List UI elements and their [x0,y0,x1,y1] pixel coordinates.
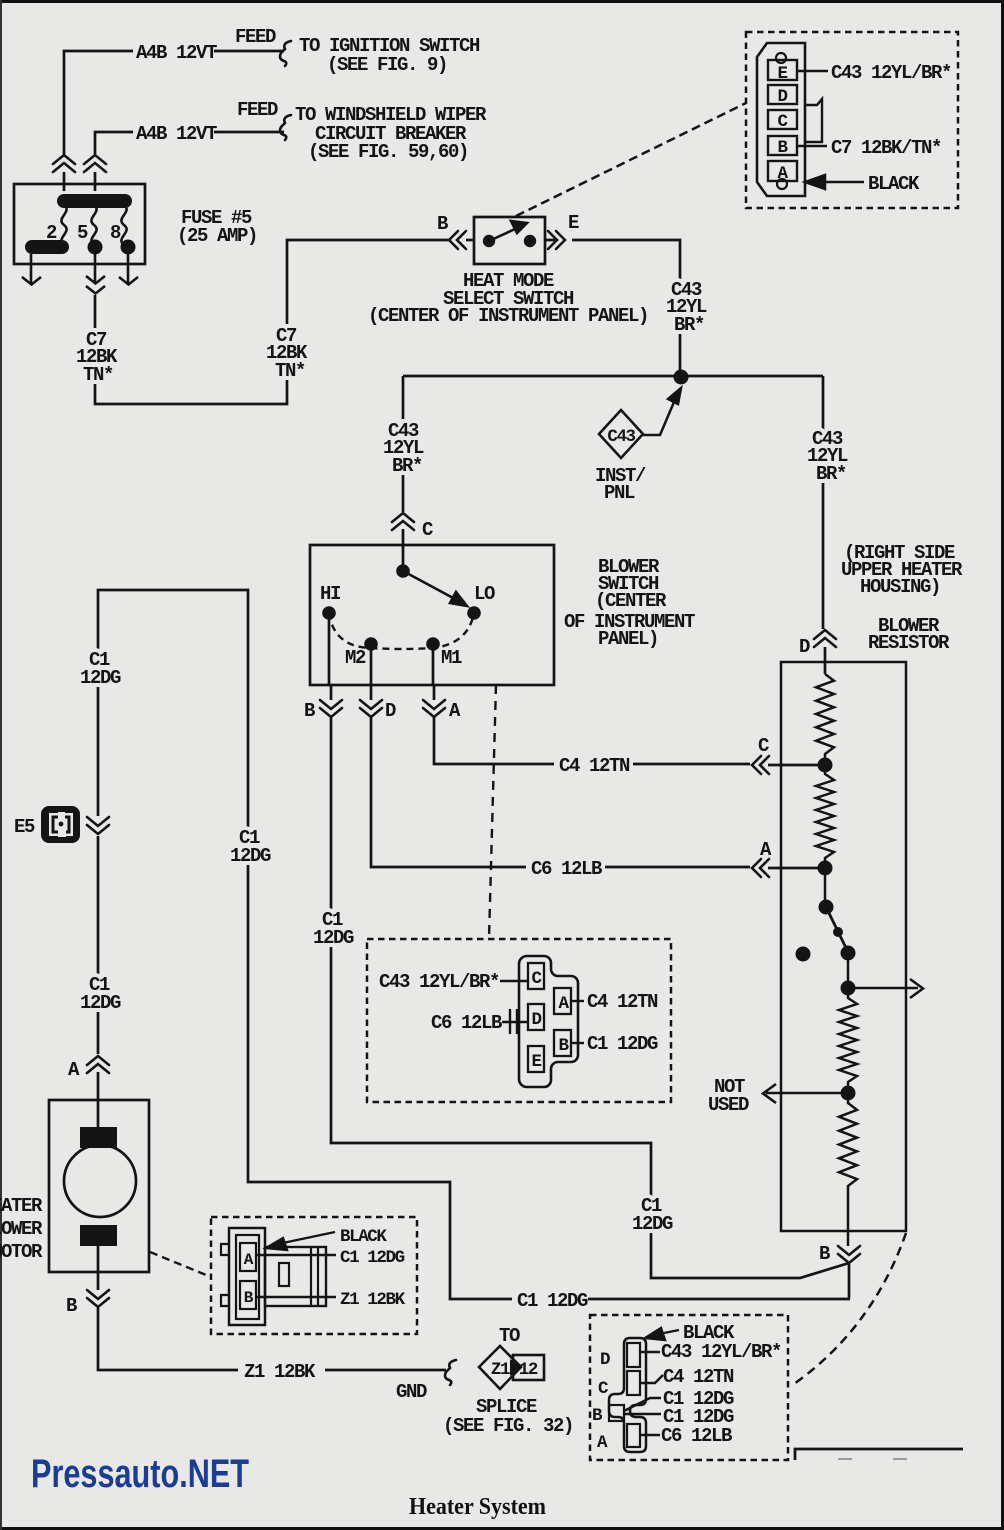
svg-text:Z1 12BK: Z1 12BK [340,1290,406,1310]
wire to tap node [847,953,850,988]
connector chevron E5 [87,817,109,834]
BLACK arrow motor connector [266,1232,335,1250]
svg-text:D: D [777,87,787,107]
leader D pin [640,1351,660,1353]
wire motor B down [98,1246,446,1370]
junction node arrow tap [841,981,856,996]
switch lever arrow to LO [403,571,467,606]
unused contact dot [796,947,811,962]
dashed contact arc [329,613,474,649]
svg-text:B: B [244,1289,254,1307]
motor brush bottom [80,1225,117,1246]
svg-text:C4 12TN: C4 12TN [559,755,630,777]
svg-text:B: B [437,213,448,235]
connector body outline [757,43,805,196]
svg-text:C7 12BK/TN*: C7 12BK/TN* [831,137,941,159]
pin A keying circle [777,179,787,189]
svg-text:A: A [68,1059,80,1081]
wire A tap to switch contact [824,868,827,907]
middle connector dashed box [367,939,671,1102]
dashed line motor to connector detail [150,1252,211,1277]
pin B middle connector [554,1030,571,1056]
connector outer shell [229,1228,265,1325]
pin E [768,60,797,80]
svg-text:(CENTER: (CENTER [595,590,667,612]
contact dot M2 [364,637,378,651]
motor M1 box [49,1100,149,1272]
connector chevron C blower switch [392,513,414,530]
wire A4B 12VT feed to windshield wiper [95,132,284,191]
fuse element pin 8 [121,205,126,245]
leader pin E wire [797,70,828,72]
dashed line from switch to connector detail [516,103,746,216]
svg-text:C: C [758,735,769,757]
svg-text:C43 12YL/BR*: C43 12YL/BR* [831,62,951,84]
svg-text:HI: HI [320,583,340,605]
motor connector dashed box [211,1217,417,1334]
svg-text:12DG: 12DG [313,927,354,949]
connector chevron B motor [87,1290,109,1307]
svg-text:TO: TO [499,1325,520,1347]
connector chevron A motor [87,1056,109,1073]
bottom connector dashed box [590,1315,788,1460]
svg-text:E5: E5 [14,816,35,838]
wire A4B 12VT feed to ignition switch [64,51,284,191]
svg-text:12: 12 [519,1360,538,1380]
contact dot LO [467,606,481,620]
wire HI to box edge [329,613,331,700]
leader pin A wire [256,1254,336,1256]
svg-text:A: A [558,994,569,1014]
switch contact dot upper [819,900,834,915]
svg-text:GND: GND [396,1381,427,1403]
wire C1 12DG motor branch [98,590,850,1299]
contact dot M1 [426,637,440,651]
fuse F5 box [14,184,145,264]
wire C1 12DG from blower switch HI [331,716,849,1278]
partial wire bottom right [795,1449,963,1460]
svg-text:8: 8 [110,222,121,244]
pin A [768,161,797,181]
svg-text:D: D [531,1010,541,1030]
svg-text:A: A [244,1251,254,1269]
switch contact dot lower [841,946,856,961]
switch lever arrow [489,221,527,241]
svg-text:C43 12YL/BR*: C43 12YL/BR* [379,971,499,993]
pin C middle connector [528,963,544,989]
svg-text:C43 12YL/BR*: C43 12YL/BR* [661,1341,781,1363]
resistor element 3 [839,988,857,1093]
svg-text:B: B [66,1295,77,1317]
wire C4 12TN from M1 to resistor C [434,716,820,765]
junction node C tap [818,758,833,773]
svg-text:C4 12TN: C4 12TN [663,1366,734,1388]
arrow out right [848,979,923,998]
ground symbol E5 [41,806,80,843]
fuse element pin 2 [61,205,66,245]
wire E to C43 junction [545,240,680,372]
motor armature circle [64,1145,136,1217]
fuse pin 8 exit wire arrow [119,254,138,285]
svg-text:HOUSING): HOUSING) [860,576,940,598]
svg-text:C6 12LB: C6 12LB [531,858,602,880]
wire C7 12BK from fuse to heat mode switch [95,240,474,404]
svg-text:C1 12DG: C1 12DG [517,1290,588,1312]
connector body middle [519,956,578,1087]
feed brace to windshield wiper [280,115,291,140]
svg-text:C4 12TN: C4 12TN [587,991,658,1013]
contact dot HI [322,606,336,620]
svg-text:Heater System: Heater System [409,1494,546,1520]
page border [0,0,1004,3]
svg-text:M2: M2 [345,647,366,669]
svg-text:A4B 12VT: A4B 12VT [136,123,217,145]
svg-text:TN*: TN* [83,364,113,386]
leader B pin middle [571,1042,584,1044]
fuse pin 2 exit wire arrow [22,254,41,285]
pin D middle connector [528,1004,544,1030]
junction node C43 [674,370,689,385]
pin E keying circle [776,53,786,63]
BLACK arrow top connector [805,175,864,189]
resistor element 4 [839,1093,857,1231]
svg-text:TN*: TN* [275,360,305,382]
svg-text:Z1 12BK: Z1 12BK [244,1361,316,1383]
connector chevron fuse top pin right [84,155,106,172]
connector chevron fuse top pin left [53,155,75,172]
svg-text:LO: LO [474,583,495,605]
blower switch box [310,545,554,685]
fuse pin 8 terminal dot [121,240,136,255]
svg-text:C1 12DG: C1 12DG [587,1033,658,1055]
connector chevron E heat mode switch [548,231,565,249]
blower resistor box [781,662,906,1231]
svg-text:C: C [422,519,433,541]
switch throw dot right [524,235,536,247]
svg-text:BLOWER: BLOWER [0,1218,43,1240]
svg-text:A: A [449,700,461,722]
shell side tabs [221,1244,229,1306]
pin A bottom connector [627,1424,640,1447]
wire M1 to box edge [433,644,434,700]
svg-text:BLACK: BLACK [340,1227,387,1247]
svg-text:B: B [558,1036,569,1056]
leader C1 12DG upper [624,1398,661,1411]
pin B bottom connector [609,1405,624,1421]
svg-text:C1 12DG: C1 12DG [340,1248,405,1268]
ground brace [445,1360,456,1385]
connector latch bracket [805,99,822,142]
wire C43 to blower switch C [402,376,405,571]
splice symbol Z1 diamond [479,1346,521,1389]
resistor element 2 [816,765,834,868]
dashed line from blower switch to connector detail [489,685,496,938]
leader A pin middle [571,1000,584,1002]
fuse pin 5 exit wire arrow [86,254,105,294]
svg-text:Z1: Z1 [491,1360,510,1380]
svg-text:C6 12LB: C6 12LB [661,1425,732,1447]
wire M2 to box edge [370,644,373,700]
svg-text:FEED: FEED [237,99,278,121]
connector body bottom [609,1338,646,1452]
svg-text:RESISTOR: RESISTOR [868,632,950,654]
mating connector body [265,1247,326,1306]
svg-text:C: C [598,1379,609,1399]
svg-text:(SEE FIG. 59,60): (SEE FIG. 59,60) [308,141,468,163]
svg-text:D: D [385,700,396,722]
svg-text:B: B [304,700,315,722]
connector chevron D blower resistor [814,630,836,647]
fuse bottom bar [25,240,69,254]
pin D bottom connector [627,1343,640,1367]
svg-text:PNL: PNL [604,482,635,504]
leader A pin [640,1434,660,1436]
resistor element 1 [816,674,834,765]
leader C1 12DG lower [624,1413,661,1415]
svg-text:12DG: 12DG [632,1213,673,1235]
svg-text:E: E [568,212,579,234]
connector chevron A blower switch [423,700,445,717]
fuse bus bar top [57,194,132,208]
svg-text:BLACK: BLACK [868,173,920,195]
junction node A tap [818,861,833,876]
svg-text:PANEL): PANEL) [598,628,658,650]
pin D [768,85,797,104]
pin E middle connector [528,1046,544,1072]
svg-text:12DG: 12DG [230,845,271,867]
svg-text:C: C [531,969,542,989]
svg-text:A: A [597,1433,608,1453]
svg-text:USED: USED [708,1094,749,1116]
pin B [768,136,797,155]
connector C43 detail dashed box [746,32,958,208]
switch blade diagonal [826,907,848,952]
svg-text:(SEE FIG. 32): (SEE FIG. 32) [443,1415,573,1437]
svg-text:(CENTER OF INSTRUMENT PANEL): (CENTER OF INSTRUMENT PANEL) [368,305,648,327]
svg-text:C6 12LB: C6 12LB [431,1012,502,1034]
svg-text:C43: C43 [607,427,635,447]
leader pin B wire [797,145,827,147]
fuse element pin 5 [91,205,96,245]
connector chevron C resistor [752,756,769,774]
svg-text:B: B [592,1406,603,1426]
svg-text:E: E [777,64,787,84]
svg-text:E: E [531,1052,541,1072]
svg-text:BR*: BR* [674,314,704,336]
svg-text:D: D [799,636,810,658]
feed brace to ignition switch [280,41,291,66]
svg-text:5: 5 [77,222,88,244]
pin B motor connector [240,1281,256,1309]
leader pin B wire [256,1296,336,1298]
dashed curve resistor to connector detail [791,1233,906,1386]
svg-text:MOTOR: MOTOR [0,1241,43,1263]
leader C pin [640,1375,663,1383]
motor brush top [80,1127,117,1148]
svg-text:(25 AMP): (25 AMP) [177,225,257,247]
svg-text:BR*: BR* [392,455,422,477]
pin C bottom connector [627,1371,640,1395]
svg-text:A4B 12VT: A4B 12VT [136,42,217,64]
wire C43 to blower resistor D [823,376,825,674]
svg-text:FEED: FEED [235,26,276,48]
svg-text:B: B [819,1243,830,1265]
switch pole dot left [483,235,495,247]
NOT USED arrow [763,1084,848,1103]
arrow from diamond to junction [643,388,681,435]
wire C6 12LB from M2 to resistor A [371,716,820,868]
junction node NOT USED tap [841,1086,856,1101]
svg-text:12DG: 12DG [80,992,121,1014]
connector chevron A resistor [752,859,769,877]
svg-text:M1: M1 [441,647,462,669]
blade bead dot [833,927,843,937]
svg-text:D: D [600,1350,610,1370]
svg-text:(SEE FIG. 9): (SEE FIG. 9) [327,54,447,76]
switch S1 heat mode box [474,217,545,264]
connector chevron B resistor [847,1231,850,1246]
svg-text:HEATER: HEATER [0,1195,43,1217]
leader C pin middle [500,980,527,982]
svg-text:BR*: BR* [816,463,846,485]
BLACK arrow bottom connector [645,1328,679,1340]
fuse pin 5 terminal dot [88,240,103,255]
wire B resistor down [848,1264,851,1298]
connector chevron D blower switch [360,700,382,717]
switch common dot [396,564,410,578]
pin A middle connector [554,988,571,1014]
pin C [768,110,797,129]
svg-text:A: A [760,839,772,861]
pin A motor connector [240,1243,256,1271]
leader D pin with connector tick [502,1009,527,1034]
splice 12 box [513,1355,544,1380]
svg-text:Pressauto.NET: Pressauto.NET [31,1452,249,1496]
splice symbol C43 diamond [599,410,643,458]
wire C43 horizontal run [403,375,823,378]
svg-text:12DG: 12DG [80,667,121,689]
connector chevron B blower switch [320,700,342,717]
connector chevron B heat mode switch [449,231,466,249]
